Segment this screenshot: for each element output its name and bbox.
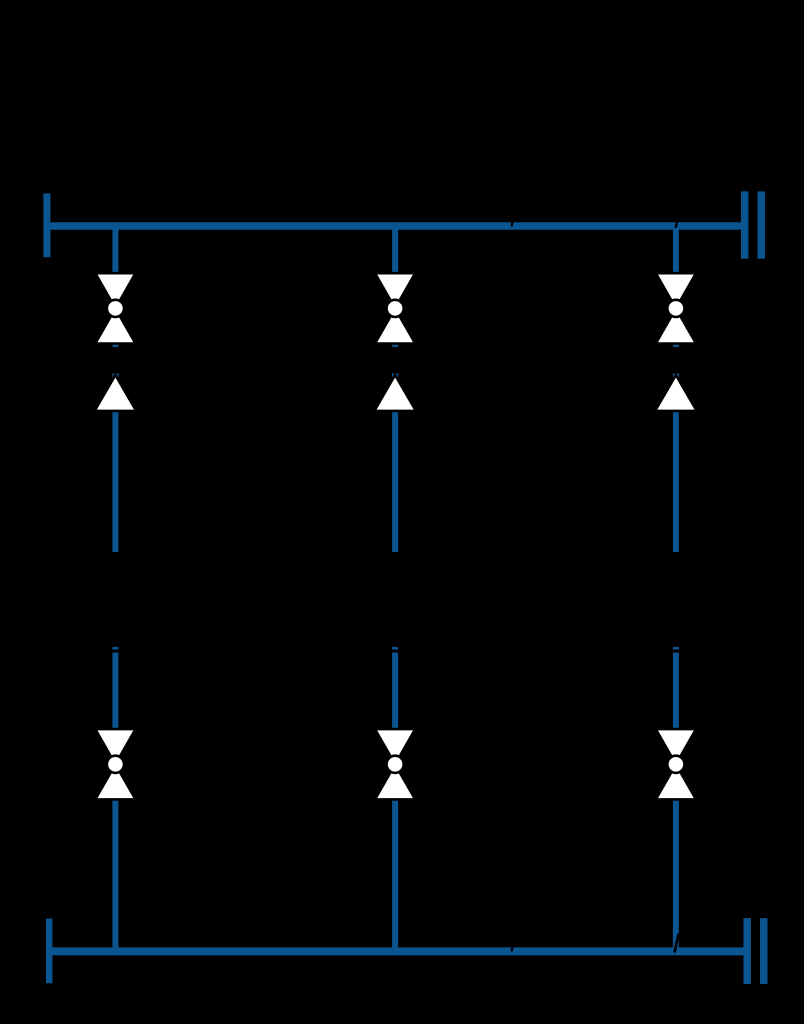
pump P1 outline gap artifact xyxy=(111,650,119,653)
valve V6 (center circle) xyxy=(667,756,684,773)
valve V2 (upper triangle) xyxy=(375,273,415,308)
pump P3 outline gap artifact xyxy=(672,650,680,653)
wire: top header to valve V3 xyxy=(673,226,679,347)
top header right end bar 1 xyxy=(741,191,749,258)
wire: pump P3 discharge riser xyxy=(673,373,679,552)
valve V6 (upper triangle) xyxy=(656,729,696,764)
wire: top header to valve V2 xyxy=(392,226,398,347)
valve V3 (lower triangle) xyxy=(656,308,696,343)
pump P2 outline gap artifact xyxy=(391,650,399,653)
valve V5 (center circle) xyxy=(387,756,404,773)
label leader tick on bottom header xyxy=(511,946,514,952)
wire: top header to valve V1 xyxy=(112,226,118,347)
check valve arrow A2 apex gap xyxy=(394,373,396,379)
wire: pump P1 suction line xyxy=(112,647,118,951)
valve V6 (lower triangle) xyxy=(656,764,696,799)
check valve arrow A1 xyxy=(95,375,137,411)
label leader tick on top header xyxy=(511,221,514,227)
valve V2 (center circle) xyxy=(387,300,404,317)
valve V4 (upper triangle) xyxy=(95,729,135,764)
label leader slash at branch 3 bottom junction xyxy=(675,934,679,953)
valve V4 (center circle) xyxy=(107,756,124,773)
valve V5 (upper triangle) xyxy=(375,729,415,764)
valve V2 (lower triangle) xyxy=(375,308,415,343)
bottom header right end bar 2 xyxy=(760,918,768,984)
top header pipe (discharge manifold) xyxy=(47,222,747,230)
label leader slash at branch 3 top junction xyxy=(676,222,678,228)
valve V1 (upper triangle) xyxy=(95,273,135,308)
valve V1 (lower triangle) xyxy=(95,308,135,343)
bottom header right end bar 1 xyxy=(743,918,751,984)
top header right end bar 2 xyxy=(757,191,765,258)
valve V4 (lower triangle) xyxy=(95,764,135,799)
wire: pump P2 discharge riser xyxy=(392,373,398,552)
wire: pump P3 suction line xyxy=(673,647,679,951)
check valve arrow A3 xyxy=(655,375,697,411)
check valve arrow A2 xyxy=(374,375,416,411)
valve V3 (center circle) xyxy=(667,300,684,317)
top header left end cap xyxy=(43,193,50,257)
bottom header left end cap xyxy=(46,919,53,984)
wire: pump P2 suction line xyxy=(392,647,398,951)
check valve arrow A3 apex gap xyxy=(675,373,677,379)
check valve arrow A1 apex gap xyxy=(114,373,116,379)
wire: pump P1 discharge riser xyxy=(112,373,118,552)
valve V3 (upper triangle) xyxy=(656,273,696,308)
valve V5 (lower triangle) xyxy=(375,764,415,799)
bottom header pipe (suction manifold) xyxy=(47,947,747,955)
valve V1 (center circle) xyxy=(107,300,124,317)
